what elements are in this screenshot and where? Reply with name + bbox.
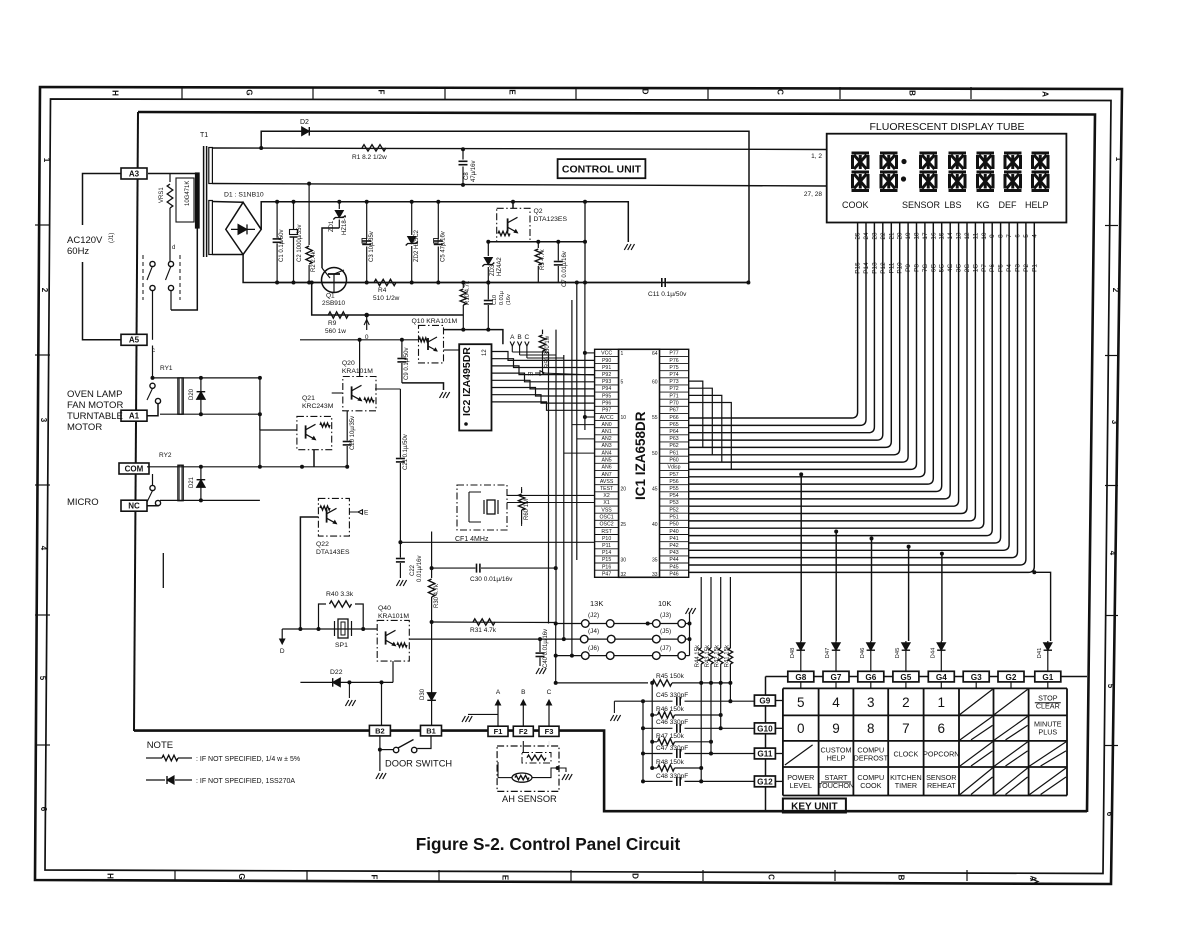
svg-text:C9 0.1µ/50v: C9 0.1µ/50v [404, 348, 410, 380]
wire bus verticals centre [549, 281, 585, 656]
svg-text:MICRO: MICRO [67, 497, 99, 508]
svg-text:HZ4A2: HZ4A2 [497, 257, 503, 276]
display digits [852, 153, 1050, 191]
relay RY2 coil [159, 452, 183, 501]
svg-text:D46: D46 [860, 648, 866, 659]
svg-text:C7 0.01µ/16v: C7 0.01µ/16v [562, 251, 568, 287]
svg-text:P56: P56 [669, 479, 678, 485]
display colon dots [901, 159, 906, 164]
svg-text:6: 6 [39, 807, 48, 812]
svg-text:5: 5 [621, 380, 624, 386]
svg-text:COM: COM [125, 464, 144, 473]
svg-text:5: 5 [1106, 684, 1115, 689]
svg-text:G9: G9 [759, 697, 770, 706]
wire A5 to relay RY1 [152, 346, 154, 378]
svg-text:2: 2 [40, 288, 49, 293]
capacitor C5 [437, 202, 439, 239]
power switch contacts [109, 230, 180, 340]
svg-text:d: d [172, 245, 175, 251]
svg-text:KRA101M: KRA101M [342, 368, 373, 375]
svg-text:AN5: AN5 [602, 458, 612, 464]
svg-text:LBS: LBS [945, 200, 962, 210]
registration mark bottom border [1030, 879, 1038, 885]
svg-text:P55: P55 [669, 486, 678, 492]
wire C9 to ground [402, 383, 444, 390]
capacitor C47 row [643, 753, 673, 755]
resistor R48 row [652, 767, 657, 769]
svg-text:20: 20 [621, 486, 627, 492]
svg-text:A: A [496, 689, 501, 696]
svg-text:P74: P74 [669, 372, 678, 378]
wire D line [282, 628, 377, 630]
svg-text:1: 1 [42, 158, 51, 163]
svg-text:12: 12 [482, 349, 488, 356]
resistors R44 R43 R42 R41 [695, 577, 733, 781]
svg-text:C: C [525, 334, 530, 341]
svg-text:0.01µ: 0.01µ [499, 290, 505, 305]
svg-text:E: E [501, 875, 510, 881]
svg-text:P40: P40 [669, 529, 678, 535]
svg-text:R2 2.4k: R2 2.4k [311, 250, 317, 272]
wire Q40 emitter down [392, 661, 394, 682]
wire Q21 to relay column [260, 429, 297, 431]
svg-text:G2: G2 [1006, 673, 1017, 682]
wire Q20 top to line [359, 340, 361, 377]
wire ladder verticals [651, 683, 653, 768]
ic IC1 right pin labels [660, 351, 689, 578]
svg-text:Q40: Q40 [378, 605, 391, 612]
svg-text:RY2: RY2 [159, 452, 172, 459]
svg-text:P50: P50 [669, 522, 678, 528]
gate boxes G8-G1 [788, 671, 1061, 688]
transistor Q10 KRA101M [412, 318, 458, 363]
schematic bounding box [138, 112, 1095, 812]
display pin numbers [855, 232, 1039, 240]
svg-text:D48: D48 [790, 648, 796, 659]
svg-text:AH SENSOR: AH SENSOR [502, 794, 557, 804]
svg-text:AN2: AN2 [602, 436, 612, 442]
svg-text:C40 0.01µ/16v: C40 0.01µ/16v [543, 629, 549, 668]
svg-text:R42 15k: R42 15k [715, 644, 721, 667]
svg-text:3: 3 [39, 418, 48, 423]
svg-text:SENSOR: SENSOR [902, 200, 941, 210]
svg-text:33: 33 [652, 572, 658, 578]
wire ZD1 to Q1 base [322, 228, 339, 268]
svg-text:1, 2: 1, 2 [811, 153, 822, 160]
wire G8 scan line [800, 474, 802, 641]
diode D20 [200, 378, 202, 414]
wire G7 scan line [835, 532, 837, 642]
svg-text:2: 2 [1111, 288, 1120, 293]
svg-text:B: B [908, 90, 917, 96]
resistor R50 [542, 330, 544, 334]
terminal A1 [121, 410, 147, 421]
svg-text:P75: P75 [669, 365, 678, 371]
svg-text:(16v: (16v [506, 294, 512, 305]
wire Q2 base net [488, 241, 585, 243]
wire bridge + output [261, 202, 628, 242]
svg-text:C20 10µ/35v: C20 10µ/35v [350, 416, 356, 450]
svg-text:Q10 KRA101M: Q10 KRA101M [412, 318, 458, 325]
svg-text:TEST: TEST [600, 486, 614, 492]
diode D30 [431, 622, 433, 726]
svg-text:D21: D21 [189, 476, 195, 488]
keypad diagonal marks [785, 689, 1066, 794]
svg-text:IC1 IZA658DR: IC1 IZA658DR [633, 411, 648, 500]
wire J row to ladder [555, 624, 557, 683]
svg-text:R45 150k: R45 150k [656, 673, 685, 680]
wires IC2 to IC1 staircase [492, 352, 595, 411]
svg-text:D: D [280, 648, 285, 655]
wire Q20 base left [332, 392, 343, 394]
wire AVCC stub [585, 416, 595, 418]
svg-text:: IF NOT SPECIFIED, 1SS270A: : IF NOT SPECIFIED, 1SS270A [196, 778, 295, 785]
svg-text:: IF NOT SPECIFIED, 1/4 w ± 5: : IF NOT SPECIFIED, 1/4 w ± 5% [196, 756, 300, 763]
capacitor C1 [276, 202, 278, 238]
svg-text:510 1/2w: 510 1/2w [373, 295, 400, 302]
svg-text:RY1: RY1 [160, 365, 173, 372]
svg-text:B: B [521, 689, 525, 696]
svg-text:A1: A1 [129, 412, 140, 421]
svg-text:C21 0.1µ/50v: C21 0.1µ/50v [403, 434, 409, 470]
svg-text:A: A [1041, 91, 1050, 97]
wire AC source left loop [83, 174, 122, 340]
svg-text:CONTROL UNIT: CONTROL UNIT [562, 164, 642, 176]
svg-text:P71: P71 [669, 393, 678, 399]
svg-text:C8: C8 [464, 172, 470, 180]
svg-text:25: 25 [621, 522, 627, 528]
wire 10K common ground [689, 612, 691, 656]
resistor R9 wire [312, 283, 464, 316]
svg-text:P16: P16 [602, 564, 611, 570]
terminal A5 [121, 334, 147, 345]
svg-text:KRA101M: KRA101M [378, 613, 409, 620]
svg-text:P11: P11 [602, 543, 611, 549]
svg-text:G3: G3 [971, 673, 982, 682]
svg-text:FLUORESCENT DISPLAY TUBE: FLUORESCENT DISPLAY TUBE [869, 121, 1024, 133]
zener ZD1 [338, 202, 340, 209]
svg-text:0: 0 [797, 721, 805, 736]
wire RY2 coil bottom [160, 499, 260, 501]
wire RY2 coil top [147, 466, 347, 468]
svg-text:G8: G8 [795, 673, 806, 682]
CONTROL UNIT label box [558, 159, 646, 178]
svg-text:F: F [377, 90, 386, 95]
keypad grid [783, 688, 1067, 795]
svg-text:0.01µ/16v: 0.01µ/16v [417, 556, 423, 582]
svg-text:1: 1 [1114, 157, 1123, 162]
svg-text:C46 330pF: C46 330pF [656, 719, 688, 726]
svg-text:P93: P93 [602, 379, 611, 385]
wire m to IC1 [543, 373, 595, 375]
svg-text:F2: F2 [519, 727, 528, 736]
svg-text:CLOCK: CLOCK [894, 750, 919, 759]
svg-text:D1 : S1NB10: D1 : S1NB10 [224, 192, 264, 199]
svg-text:G4: G4 [936, 673, 947, 682]
transistor Q20 KRA101M [342, 360, 376, 411]
capacitor C45 row [614, 700, 672, 702]
svg-text:AN4: AN4 [602, 450, 612, 456]
svg-text:AN6: AN6 [602, 465, 612, 471]
svg-text:R47 150k: R47 150k [656, 733, 685, 740]
wire bridge AC top [212, 201, 243, 204]
svg-text:P54: P54 [669, 493, 678, 499]
svg-text:COOK: COOK [842, 200, 869, 210]
wire A3 to primary [148, 174, 197, 311]
zener ZD2 [411, 202, 413, 235]
svg-text:VRS1: VRS1 [159, 187, 165, 203]
svg-text:H: H [111, 90, 120, 96]
terminal NC [121, 500, 147, 511]
svg-text:C22: C22 [410, 564, 416, 576]
resistor R40 [319, 604, 364, 629]
svg-text:F: F [370, 875, 379, 880]
node A arrow at F1 [497, 703, 499, 726]
wire Q2 emitter to rail [512, 202, 514, 209]
svg-text:10: 10 [621, 415, 627, 421]
svg-text:HELP: HELP [1025, 200, 1049, 210]
resistor R2 [308, 184, 310, 245]
svg-text:C5 47µ/16v: C5 47µ/16v [441, 231, 447, 262]
svg-text:AVSS: AVSS [600, 479, 614, 485]
ic IC1 left pin labels [595, 351, 619, 578]
svg-text:3: 3 [867, 695, 875, 710]
svg-text:P57: P57 [669, 472, 678, 478]
svg-text:AN3: AN3 [602, 443, 612, 449]
wire A5 line to Q10 [300, 339, 419, 341]
terminal F1 [488, 726, 508, 736]
svg-text:C47 330pF: C47 330pF [656, 745, 688, 752]
ic IC1 pin numbers [621, 351, 658, 578]
wire F1 ground elbow [468, 713, 498, 715]
connector row J4 J5 [409, 628, 691, 643]
border zone letters and ticks [35, 87, 1123, 882]
crystal CF1 4MHz [455, 485, 507, 543]
svg-text:C3 10µ/35v: C3 10µ/35v [369, 231, 375, 262]
capacitor C10 [487, 283, 489, 300]
svg-text:P46: P46 [669, 572, 678, 578]
svg-text:R4: R4 [378, 287, 387, 294]
wire Q10 to IC2 [444, 349, 460, 351]
terminal A3 [121, 168, 147, 179]
capacitor C20 [346, 411, 348, 441]
svg-text:10K: 10K [658, 599, 671, 608]
display pin names [855, 262, 1039, 274]
resistor R5 [537, 242, 539, 248]
svg-text:D30: D30 [420, 688, 426, 700]
svg-text:(J4): (J4) [588, 628, 599, 635]
svg-text:R1 8.2 1/2w: R1 8.2 1/2w [352, 154, 387, 161]
svg-text:G12: G12 [757, 778, 773, 787]
svg-text:(J3): (J3) [660, 612, 671, 619]
svg-text:(J7): (J7) [660, 645, 671, 652]
svg-text:T1: T1 [200, 132, 208, 139]
svg-text:DEFROST: DEFROST [854, 754, 889, 763]
svg-text:OSC2: OSC2 [600, 522, 614, 528]
svg-text:10G471K: 10G471K [185, 181, 191, 206]
svg-text:P95: P95 [602, 393, 611, 399]
svg-text:60: 60 [652, 380, 658, 386]
diode D21 [200, 465, 202, 501]
svg-text:C: C [776, 89, 785, 95]
svg-text:PLUS: PLUS [1038, 728, 1057, 737]
terminal F3 [539, 726, 559, 736]
svg-text:R44 15k: R44 15k [695, 644, 701, 667]
terminal COM [119, 463, 149, 474]
svg-text:AN1: AN1 [602, 429, 612, 435]
transistor Q21 KRC243M [297, 395, 334, 450]
svg-text:IC2 IZA495DR: IC2 IZA495DR [461, 347, 473, 416]
terminal B2 [369, 725, 390, 736]
connector row J6 J7 [554, 645, 690, 659]
svg-text:60Hz: 60Hz [67, 246, 89, 257]
buzzer SP1 [335, 619, 352, 649]
svg-text:50: 50 [652, 451, 658, 457]
svg-text:D45: D45 [895, 648, 901, 659]
capacitor C40 [539, 639, 541, 652]
svg-text:C11 0.1µ/50v: C11 0.1µ/50v [648, 291, 687, 298]
svg-text:Q22: Q22 [316, 541, 329, 548]
svg-text:27, 28: 27, 28 [804, 191, 822, 198]
svg-text:C10: C10 [492, 295, 498, 305]
svg-text:C: C [547, 689, 552, 696]
svg-text:P53: P53 [669, 500, 678, 506]
svg-text:P90: P90 [602, 358, 611, 364]
wire Q21 emitter down [313, 450, 315, 467]
svg-text:F3: F3 [545, 727, 554, 736]
svg-text:B1: B1 [426, 726, 436, 735]
svg-text:45: 45 [652, 486, 658, 492]
svg-text:D47: D47 [825, 648, 831, 659]
wire G4 scan line [941, 554, 943, 641]
wire P10 row [400, 541, 594, 543]
svg-text:G1: G1 [1042, 673, 1053, 682]
svg-text:D: D [641, 89, 650, 95]
resistor R46 row [652, 714, 657, 716]
wire RY1 coil top [153, 377, 260, 379]
display legend labels [842, 200, 1049, 210]
capacitor C30 row [432, 567, 476, 569]
svg-text:P73: P73 [669, 379, 678, 385]
ground C45 [613, 701, 615, 713]
svg-text:POPCORN: POPCORN [923, 750, 959, 759]
svg-text:P42: P42 [669, 543, 678, 549]
svg-text:ZD1: ZD1 [329, 220, 335, 232]
svg-text:R30 4.7k: R30 4.7k [434, 583, 440, 608]
svg-text:Figure S-2. Control Panel Circ: Figure S-2. Control Panel Circuit [416, 834, 681, 854]
svg-text:OSC1: OSC1 [600, 515, 614, 521]
svg-text:X1: X1 [603, 500, 609, 506]
svg-text:9: 9 [832, 721, 840, 736]
svg-text:ZD3: ZD3 [490, 264, 496, 276]
keypad cell labels [787, 693, 1062, 789]
ic IC2 IZA495DR [459, 344, 491, 430]
resistor R47 row [652, 741, 657, 743]
svg-text:A3: A3 [129, 169, 140, 178]
wire COM to RY2 [152, 474, 154, 485]
svg-text:OVEN LAMP: OVEN LAMP [67, 389, 122, 400]
wire bridge - output to 5v rail [243, 255, 748, 283]
svg-text:6: 6 [938, 721, 946, 736]
resistor R1 [362, 145, 386, 151]
svg-text:H: H [106, 873, 115, 879]
svg-text:P92: P92 [602, 372, 611, 378]
transistor Q1 2SB910 [322, 268, 347, 308]
resistor R4 [374, 279, 396, 285]
row R31 to J2 [432, 621, 556, 624]
capacitor C21 [399, 389, 401, 458]
svg-text:(J1): (J1) [109, 233, 115, 243]
svg-text:Q20: Q20 [342, 360, 355, 367]
wire VCC stub [585, 352, 595, 354]
svg-text:A5: A5 [129, 336, 140, 345]
svg-text:(J5): (J5) [660, 628, 671, 635]
svg-text:G7: G7 [831, 673, 842, 682]
svg-text:G10: G10 [757, 725, 773, 734]
ground below D22 [348, 682, 350, 698]
svg-text:P14: P14 [602, 550, 611, 556]
wire relay column [259, 378, 261, 467]
5v rail [277, 282, 660, 284]
transistor Q2 DTA123ES [497, 208, 568, 242]
svg-text:P41: P41 [669, 536, 678, 542]
transformer T1 [196, 132, 213, 257]
svg-text:DTA123ES: DTA123ES [534, 216, 568, 223]
svg-text:4: 4 [39, 546, 48, 551]
svg-text:DEF: DEF [999, 200, 1018, 210]
svg-text:Q21: Q21 [302, 395, 315, 402]
terminal B1 [421, 725, 442, 736]
capacitor C2 [293, 202, 295, 230]
svg-text:P44: P44 [669, 557, 678, 563]
svg-text:MOTOR: MOTOR [67, 422, 102, 433]
svg-text:LEVEL: LEVEL [790, 781, 812, 790]
node 0 arrow [366, 315, 368, 330]
svg-text:SP1: SP1 [335, 642, 348, 649]
capacitor C8 [462, 149, 464, 159]
svg-text:REHEAT: REHEAT [927, 781, 956, 790]
svg-text:C48 330pF: C48 330pF [656, 773, 688, 780]
diode D22 wire [300, 681, 393, 683]
svg-text:3: 3 [1110, 420, 1119, 425]
svg-text:P10: P10 [602, 536, 611, 542]
note legend [146, 740, 300, 785]
svg-text:C30 0.01µ/16v: C30 0.01µ/16v [470, 576, 513, 583]
capacitor C22 [399, 542, 401, 557]
svg-text:P15: P15 [602, 557, 611, 563]
wire G1 scan line [1034, 572, 1050, 641]
svg-text:13K: 13K [590, 599, 603, 608]
svg-text:40: 40 [652, 522, 658, 528]
svg-text:F1: F1 [494, 727, 503, 736]
svg-text:5: 5 [797, 695, 805, 710]
svg-text:P66: P66 [669, 415, 678, 421]
varistor VRS1 [169, 174, 171, 183]
svg-text:G6: G6 [865, 673, 876, 682]
ground below Q10 [440, 392, 450, 398]
svg-text:G: G [237, 873, 246, 879]
wire Q22 collector down [300, 517, 318, 629]
svg-text:P52: P52 [669, 507, 678, 513]
resistor R60 [521, 489, 523, 493]
svg-text:NC: NC [128, 502, 140, 511]
svg-text:DOOR SWITCH: DOOR SWITCH [385, 759, 452, 769]
svg-text:P77: P77 [669, 351, 678, 357]
svg-text:P62: P62 [669, 443, 678, 449]
svg-text:RST: RST [601, 529, 612, 535]
svg-text:R5 4.7k: R5 4.7k [540, 248, 546, 270]
capacitor C46 row [643, 727, 673, 729]
